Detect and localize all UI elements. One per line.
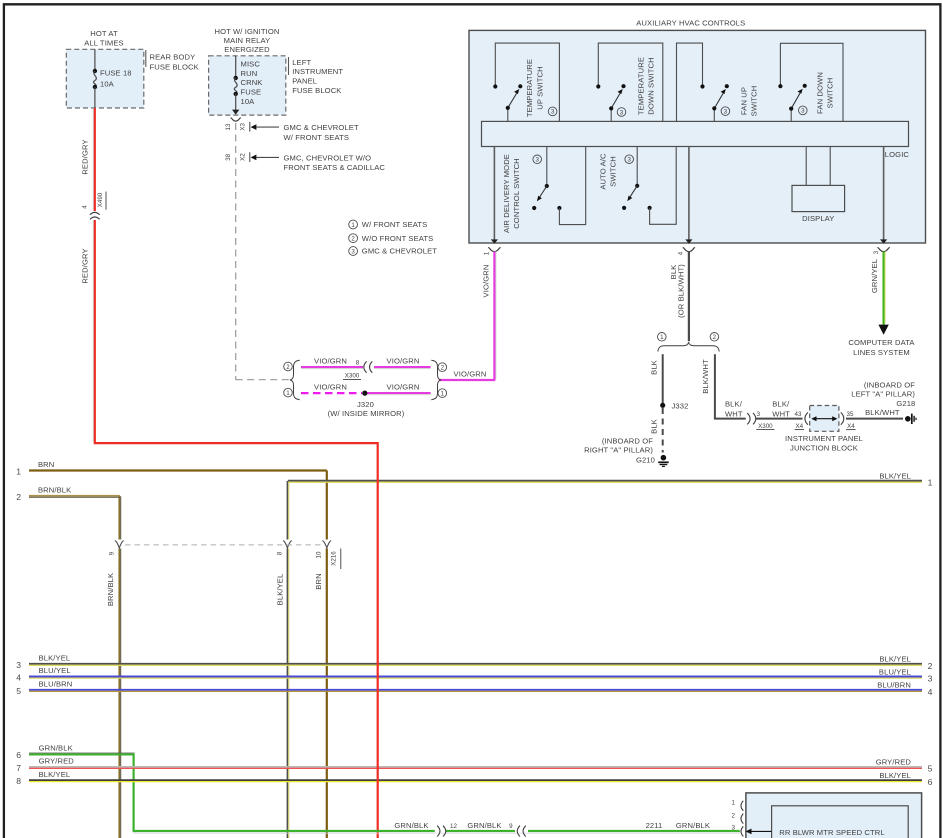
temperature up switch [493,43,559,121]
svg-text:8: 8 [277,551,284,555]
svg-text:3: 3 [928,674,933,684]
logic output wire pin 1 [483,147,500,256]
svg-text:RED/GRY: RED/GRY [81,248,90,283]
node 2 circle left [284,362,293,371]
wire BLU/YEL row 4 [16,666,932,683]
svg-text:FAN UP: FAN UP [740,87,749,115]
fan down switch [778,43,843,121]
svg-text:2211: 2211 [646,821,663,830]
svg-text:X300: X300 [345,373,360,380]
connector X3 pin 13 [225,122,359,142]
arrow to computer data lines [878,325,888,335]
splice J320 [362,391,367,396]
svg-text:J320: J320 [357,400,374,409]
connector X300 pin 8 [343,360,372,380]
svg-text:FAN DOWN: FAN DOWN [816,72,825,114]
svg-text:RR BLWR MTR SPEED CTRL: RR BLWR MTR SPEED CTRL [779,828,884,837]
svg-text:BLK: BLK [649,360,658,375]
node 1 circle right [438,389,447,398]
svg-text:BLK/WHT: BLK/WHT [701,359,710,394]
svg-text:X2: X2 [240,153,247,161]
wire GRN/BLK down and along bottom [133,821,740,833]
auto a/c switch [599,147,677,225]
svg-text:WHT: WHT [772,409,790,418]
logic output wire pin 4 [678,147,695,256]
fan up switch [677,43,759,121]
svg-text:1: 1 [660,334,664,341]
air delivery mode control switch [502,147,586,234]
svg-text:12: 12 [450,823,457,830]
fuse FUSE 18 10A [93,49,132,108]
svg-text:COMPUTER DATA: COMPUTER DATA [848,338,915,347]
svg-text:G210: G210 [636,456,655,465]
wire BRN/BLK vertical [119,496,120,838]
svg-text:5: 5 [928,764,933,774]
brace right (merge) [431,360,441,399]
svg-text:JUNCTION BLOCK: JUNCTION BLOCK [790,443,858,452]
rear body fuse block [66,29,199,108]
svg-text:GRN/BLK: GRN/BLK [394,821,428,830]
svg-text:1: 1 [441,390,445,397]
svg-text:LEFT: LEFT [292,58,311,67]
wire GRN/BLK vertical [133,754,135,832]
svg-text:TEMPERATURE: TEMPERATURE [637,57,646,115]
svg-text:2: 2 [16,492,21,502]
svg-text:X3: X3 [240,122,247,130]
svg-text:3: 3 [627,157,631,164]
svg-text:X216: X216 [331,551,338,566]
svg-text:LINES SYSTEM: LINES SYSTEM [853,348,910,357]
svg-text:9: 9 [109,551,116,555]
svg-text:TEMPERATURE: TEMPERATURE [525,59,534,117]
svg-text:BLK: BLK [649,419,658,434]
svg-text:RED/GRY: RED/GRY [81,139,90,174]
wire BLK dashed to ground [662,408,664,453]
svg-text:10: 10 [316,551,323,558]
svg-text:G218: G218 [896,399,915,408]
splice J332 [660,403,665,408]
svg-text:BLK/: BLK/ [725,399,743,408]
wire BLK/WHT to G218 [846,418,903,420]
wire BLK to J332 [662,354,664,404]
svg-text:4: 4 [16,673,21,683]
wire BLK/WHT down and right [715,354,746,418]
wire VIO/GRN upper row [301,357,431,369]
svg-text:(W/ INSIDE MIRROR): (W/ INSIDE MIRROR) [328,409,405,418]
svg-text:X300: X300 [758,423,773,430]
svg-text:3: 3 [16,660,21,670]
svg-text:10A: 10A [100,80,115,89]
svg-text:UP SWITCH: UP SWITCH [536,66,545,110]
wire BRN/BLK row 2 [16,486,120,502]
temperature down switch [596,43,663,121]
svg-text:CONTROL SWITCH: CONTROL SWITCH [512,158,521,229]
svg-text:BLU/BRN: BLU/BRN [877,681,911,690]
svg-text:3: 3 [801,108,805,115]
svg-text:10A: 10A [241,97,256,106]
svg-text:2: 2 [928,661,933,671]
svg-text:(INBOARD OF: (INBOARD OF [864,381,915,390]
svg-text:1: 1 [483,251,490,255]
svg-text:LOGIC: LOGIC [885,150,910,159]
svg-text:RUN: RUN [241,69,258,78]
svg-text:4: 4 [82,205,89,209]
svg-text:MAIN RELAY: MAIN RELAY [224,36,271,45]
svg-text:AUXILIARY HVAC CONTROLS: AUXILIARY HVAC CONTROLS [636,19,745,28]
logic bar [482,121,909,146]
svg-text:X4: X4 [847,423,855,430]
svg-text:BLU/YEL: BLU/YEL [879,667,911,676]
svg-text:8: 8 [16,776,21,786]
wire BLK from pin 4 [688,252,690,342]
svg-text:VIO/GRN: VIO/GRN [314,383,347,392]
instrument panel junction block [785,406,863,453]
wire GRN/BLK row 6 [16,744,134,760]
svg-text:1: 1 [351,222,355,229]
svg-text:REAR BODY: REAR BODY [150,53,196,62]
wire RED/GRY from fuse 18 [92,108,94,211]
svg-text:SWITCH: SWITCH [826,78,835,109]
ground G218 [905,414,916,424]
svg-text:43: 43 [795,411,802,418]
wire GRN/YEL from pin 3 [882,252,884,326]
svg-text:FUSE BLOCK: FUSE BLOCK [292,86,341,95]
svg-text:VIO/GRN: VIO/GRN [387,357,420,366]
ground G210 [658,455,669,466]
wire RED/GRY down to bottom [92,220,94,442]
svg-text:FUSE 18: FUSE 18 [100,69,132,78]
svg-text:GMC & CHEVROLET: GMC & CHEVROLET [284,123,359,132]
svg-text:FUSE: FUSE [241,88,262,97]
svg-text:W/ FRONT SEATS: W/ FRONT SEATS [362,220,428,229]
connector cup below fuse block [231,118,241,122]
svg-text:2: 2 [732,812,736,819]
svg-text:9: 9 [509,823,513,830]
svg-text:VIO/GRN: VIO/GRN [387,383,420,392]
svg-text:CRNK: CRNK [241,78,263,87]
svg-text:BRN/BLK: BRN/BLK [106,573,115,606]
svg-text:MISC: MISC [241,59,261,68]
connector X4 pin 43 [795,411,808,430]
wire BLK/YEL row 3 [16,654,932,671]
node 2 circle [710,333,719,342]
svg-text:W/ FRONT SEATS: W/ FRONT SEATS [284,133,350,142]
svg-text:SWITCH: SWITCH [750,86,759,117]
svg-text:INSTRUMENT PANEL: INSTRUMENT PANEL [785,434,863,443]
node 2 circle right [438,363,447,372]
svg-text:2: 2 [286,364,290,371]
svg-text:2: 2 [441,364,445,371]
wire BLK/YEL vertical [287,481,288,838]
svg-text:BLK/YEL: BLK/YEL [879,771,911,780]
svg-text:X490: X490 [97,192,104,207]
svg-text:HOT AT: HOT AT [90,29,118,38]
connector pin 12 [437,823,457,837]
node 1 circle [658,333,667,342]
svg-text:RIGHT "A" PILLAR): RIGHT "A" PILLAR) [584,446,653,455]
svg-text:3: 3 [535,157,539,164]
svg-text:VIO/GRN: VIO/GRN [314,357,347,366]
wire VIO/GRN lower row (dashed left) [301,383,431,395]
svg-text:BRN: BRN [314,573,323,589]
arrow into pin 3 [751,830,772,832]
node 1 circle left [284,388,293,397]
connector pin 9 [509,823,526,837]
wire BLK/YEL row 8 [16,770,932,787]
svg-text:GRN/YEL: GRN/YEL [870,259,879,293]
wire dashed down from fuse block 2 [235,123,237,380]
svg-text:7: 7 [16,763,21,773]
wire BRN row 1 [16,460,326,477]
svg-text:35: 35 [847,411,854,418]
svg-text:BLK/WHT: BLK/WHT [865,408,900,417]
svg-text:3: 3 [873,250,880,254]
split brace under BLK [658,342,719,351]
svg-text:BLK/YEL: BLK/YEL [879,471,911,480]
left instrument panel fuse block [209,27,344,115]
svg-text:LEFT "A" PILLAR): LEFT "A" PILLAR) [851,389,915,398]
connector X216 [106,541,341,607]
svg-text:BLK/YEL: BLK/YEL [276,574,285,606]
display [792,147,845,224]
wire BLK/YEL right row 1 [288,471,933,487]
svg-text:ALL TIMES: ALL TIMES [84,38,124,47]
svg-text:1: 1 [286,390,290,397]
svg-text:3: 3 [724,108,728,115]
svg-text:W/O FRONT SEATS: W/O FRONT SEATS [362,234,434,243]
svg-text:BLK/YEL: BLK/YEL [39,654,71,663]
svg-text:1: 1 [928,477,933,487]
svg-text:(OR BLK/WHT): (OR BLK/WHT) [677,264,686,318]
svg-text:GMC, CHEVROLET W/O: GMC, CHEVROLET W/O [284,154,372,163]
svg-text:BLK/: BLK/ [772,399,790,408]
svg-text:ENERGIZED: ENERGIZED [224,45,270,54]
svg-text:BLK/YEL: BLK/YEL [879,655,911,664]
svg-text:INSTRUMENT: INSTRUMENT [292,67,343,76]
svg-text:VIO/GRN: VIO/GRN [482,265,491,298]
brace left (split) [290,360,300,399]
svg-text:(INBOARD OF: (INBOARD OF [602,437,653,446]
svg-text:13: 13 [225,123,232,130]
svg-text:38: 38 [225,153,232,160]
connector X2 pin 38 [225,152,386,172]
svg-text:VIO/GRN: VIO/GRN [454,369,487,378]
svg-text:5: 5 [16,686,21,696]
wire GRY/RED row 7 [16,757,932,774]
svg-text:SWITCH: SWITCH [609,156,618,187]
svg-text:DISPLAY: DISPLAY [802,214,834,223]
svg-text:GMC & CHEVROLET: GMC & CHEVROLET [362,247,437,256]
svg-text:1: 1 [16,466,21,476]
svg-text:4: 4 [678,251,685,255]
svg-text:GRN/BLK: GRN/BLK [39,744,73,753]
svg-text:3: 3 [757,411,761,418]
legend circled notes [349,220,438,256]
rr blwr mtr speed ctrl module [746,793,922,838]
svg-text:J332: J332 [672,401,689,410]
svg-text:GRN/BLK: GRN/BLK [676,821,710,830]
connector X4 pin 35 [841,411,856,430]
svg-text:3: 3 [551,109,555,116]
svg-text:2: 2 [713,334,717,341]
svg-text:FRONT SEATS & CADILLAC: FRONT SEATS & CADILLAC [284,163,386,172]
svg-text:6: 6 [928,777,933,787]
svg-text:BLU/BRN: BLU/BRN [39,680,73,689]
wire BRN vertical [326,471,328,838]
wire BLK/WHT to junction block [756,418,803,420]
svg-text:AUTO A/C: AUTO A/C [599,153,608,190]
svg-text:GRY/RED: GRY/RED [876,758,912,767]
svg-text:FUSE BLOCK: FUSE BLOCK [150,62,199,71]
svg-text:BRN: BRN [38,460,54,469]
svg-text:GRY/RED: GRY/RED [39,757,75,766]
svg-text:1: 1 [732,799,736,806]
svg-text:BRN/BLK: BRN/BLK [38,486,71,495]
svg-text:WHT: WHT [725,409,743,418]
connector X490 pin 4 [82,192,106,220]
svg-text:BLK/YEL: BLK/YEL [39,770,71,779]
logic output wire pin 3 [873,147,890,255]
wire VIO/GRN from pin 1 [439,252,496,381]
svg-text:DOWN SWITCH: DOWN SWITCH [647,57,656,114]
svg-text:GRN/BLK: GRN/BLK [467,821,501,830]
svg-text:6: 6 [16,750,21,760]
svg-text:2: 2 [351,236,355,243]
svg-text:4: 4 [928,687,933,697]
svg-text:3: 3 [351,248,355,255]
svg-text:PANEL: PANEL [292,77,317,86]
svg-text:8: 8 [356,360,360,367]
fuse MISC RUN CRNK FUSE 10A [232,56,263,115]
connector X300 pin 3 [747,411,774,430]
svg-text:3: 3 [732,825,736,832]
svg-text:BLU/YEL: BLU/YEL [39,666,71,675]
wire BLU/BRN row 5 [16,680,932,697]
svg-text:3: 3 [620,109,624,116]
svg-text:HOT W/ IGNITION: HOT W/ IGNITION [215,27,280,36]
svg-text:AIR DELIVERY MODE: AIR DELIVERY MODE [502,154,511,233]
svg-text:X4: X4 [796,423,804,430]
